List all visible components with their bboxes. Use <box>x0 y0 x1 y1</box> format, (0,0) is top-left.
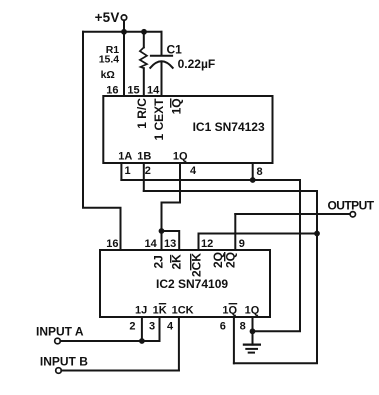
svg-text:2: 2 <box>129 321 135 333</box>
svg-text:3: 3 <box>149 321 155 333</box>
svg-text:4: 4 <box>167 321 174 333</box>
svg-text:2: 2 <box>145 165 151 177</box>
svg-text:1Q: 1Q <box>170 98 184 114</box>
svg-text:1Q: 1Q <box>222 304 237 316</box>
svg-text:14: 14 <box>147 85 160 97</box>
svg-text:9: 9 <box>239 238 245 250</box>
svg-text:6: 6 <box>220 321 226 333</box>
svg-text:1CK: 1CK <box>172 304 194 316</box>
svg-text:1 R/C: 1 R/C <box>135 98 149 129</box>
svg-text:INPUT B: INPUT B <box>40 354 88 368</box>
svg-text:1Q: 1Q <box>173 151 188 163</box>
svg-text:16: 16 <box>106 85 118 97</box>
svg-text:2J: 2J <box>152 255 166 268</box>
svg-text:1Q: 1Q <box>245 304 260 316</box>
svg-text:2CK: 2CK <box>190 253 204 277</box>
svg-text:1: 1 <box>125 165 131 177</box>
svg-text:15.4: 15.4 <box>99 54 120 66</box>
svg-text:1B: 1B <box>137 151 151 163</box>
svg-text:0.22µF: 0.22µF <box>178 57 216 71</box>
svg-text:IC1 SN74123: IC1 SN74123 <box>193 120 265 134</box>
svg-text:1 CEXT: 1 CEXT <box>152 98 166 141</box>
svg-text:1K: 1K <box>153 304 167 316</box>
svg-text:INPUT A: INPUT A <box>36 325 84 339</box>
svg-text:IC2 SN74109: IC2 SN74109 <box>156 277 228 291</box>
svg-text:OUTPUT: OUTPUT <box>328 199 375 213</box>
svg-text:1A: 1A <box>118 151 132 163</box>
svg-text:2K: 2K <box>170 254 184 270</box>
svg-text:15: 15 <box>127 85 139 97</box>
svg-text:C1: C1 <box>167 43 183 57</box>
svg-text:14: 14 <box>145 238 158 250</box>
svg-text:8: 8 <box>240 321 246 333</box>
svg-text:kΩ: kΩ <box>101 69 115 81</box>
svg-text:2Q: 2Q <box>224 252 238 268</box>
svg-text:+5V: +5V <box>95 10 120 25</box>
svg-text:8: 8 <box>257 166 263 178</box>
svg-text:13: 13 <box>164 238 176 250</box>
svg-text:16: 16 <box>106 238 118 250</box>
svg-text:1J: 1J <box>135 304 147 316</box>
svg-text:4: 4 <box>190 165 197 177</box>
svg-text:12: 12 <box>201 238 213 250</box>
